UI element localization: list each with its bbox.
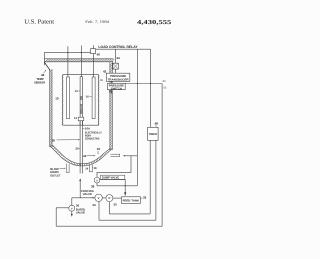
svg-text:28: 28 (52, 139, 56, 143)
svg-text:70: 70 (109, 90, 113, 94)
svg-text:52: 52 (163, 86, 166, 89)
svg-text:SENSOR: SENSOR (34, 81, 46, 85)
feed tank box 32 (121, 197, 140, 204)
label 70 (109, 90, 113, 94)
pressure transducer box (106, 73, 129, 81)
wire to steam outlet sensor (v1) (136, 49, 138, 156)
svg-text:OUTLET: OUTLET (50, 173, 61, 177)
timer output wire A (149, 140, 151, 214)
label 36 (steam space) (100, 79, 103, 82)
transducer-switch connector wire (111, 81, 113, 83)
label 10 (55, 97, 59, 101)
control valve circle 38 (95, 194, 102, 201)
label 38 (91, 184, 95, 188)
svg-text:14: 14 (75, 90, 78, 93)
label 12 (74, 117, 77, 120)
bleed valve drain arrow (71, 211, 73, 217)
label 20 with pointer (75, 147, 80, 151)
svg-text:18: 18 (94, 167, 97, 170)
label DUMP VALVE (boxed) (101, 175, 125, 179)
electrode E3 hanger rod (93, 45, 95, 77)
svg-text:4,430,555: 4,430,555 (137, 20, 171, 26)
svg-text:12: 12 (74, 117, 77, 120)
label 50 (163, 80, 166, 83)
timer box 48 (148, 127, 158, 140)
pump to feed tank pipe (113, 197, 122, 199)
electrode E2 hanger rod (80, 46, 82, 77)
bleed branch drop (71, 198, 73, 205)
svg-text:40: 40 (97, 53, 101, 57)
dump valve top wire (97, 156, 131, 178)
temp sensor lead wire (43, 53, 45, 66)
shaft bushing at vessel bottom (78, 117, 84, 121)
switch pressure tap stub (111, 90, 113, 94)
label 32 with leader (140, 196, 146, 200)
label 30 (113, 202, 117, 206)
electrode E1 (left) (66, 77, 69, 119)
label 46 (41, 73, 45, 77)
label 16A with leader (83, 126, 90, 130)
junction switch-wire x timer-drop (150, 83, 151, 84)
svg-text:DUMP VALVE: DUMP VALVE (102, 176, 119, 180)
svg-text:10: 10 (55, 97, 59, 101)
svg-text:19: 19 (97, 147, 101, 151)
dump valve circle (94, 177, 100, 183)
feed pipe left run (72, 197, 95, 199)
svg-text:44: 44 (116, 56, 120, 60)
tank top-left corner chamfer (45, 62, 51, 70)
blowdown outlet stub (66, 164, 70, 173)
label BLOW DOWN OUTLET (50, 167, 61, 178)
relay to transducer wire (115, 69, 117, 73)
svg-text:36: 36 (100, 79, 103, 82)
svg-text:VALVE: VALVE (83, 192, 93, 196)
steam outlet pointer arrow (123, 155, 137, 157)
label 48 (155, 122, 159, 128)
svg-text:CONDUCTIVE: CONDUCTIVE (85, 136, 100, 140)
label ELECTRICALLY NON-CONDUCTIVE (85, 130, 102, 140)
feed pump circle 30 (106, 195, 113, 202)
tank bottom curve hatching (50, 145, 112, 166)
svg-text:U.S. Patent: U.S. Patent (24, 18, 54, 25)
svg-text:36: 36 (76, 204, 80, 208)
electrode E2 / center shaft upper (80, 77, 82, 126)
label 14 electrode leader (75, 90, 80, 93)
condensate return rail (97, 183, 137, 186)
svg-text:V: V (98, 196, 100, 200)
label 46 arrow (44, 70, 47, 73)
electrode E1 hanger rod (67, 46, 69, 77)
bus junction E2 (81, 52, 82, 53)
stub 18 (right drain) (89, 164, 93, 172)
svg-text:50: 50 (163, 80, 166, 83)
label 24 arrow (83, 154, 95, 158)
tank left wall (hatched band) (50, 69, 52, 147)
timer feed wire (v2) (150, 49, 152, 127)
label CONTROL VALVE (81, 189, 94, 196)
svg-text:VALVE: VALVE (76, 212, 85, 215)
timer output wire B (155, 140, 157, 220)
v1 lower segment (136, 156, 138, 186)
svg-text:V: V (71, 207, 73, 210)
pump to control valve pipe (102, 197, 106, 199)
electrode bus wire (44, 52, 90, 54)
bleed valve circle 36 (69, 205, 75, 211)
junction return rail (125, 185, 126, 186)
tank right wall (hatched band) (110, 62, 112, 150)
header: date Feb. 7, 1984 (85, 19, 109, 24)
electrode E3 (right) (92, 77, 95, 119)
label BLEED VALVE (76, 209, 85, 215)
header: U.S. Patent (24, 18, 54, 25)
svg-text:30: 30 (113, 202, 117, 206)
tank top lid (hatched band) (44, 59, 114, 62)
label 28 with arrow (52, 139, 80, 143)
header: patent number 4,430,555 (137, 20, 171, 26)
label 40 (97, 53, 101, 57)
inner vessel bottom edge (63, 124, 99, 126)
center shaft lower (through tank bottom) (80, 121, 82, 174)
svg-text:24: 24 (83, 154, 87, 158)
control valve inlet arrow (93, 197, 95, 199)
feed pipe riser with arrow into tank (79, 178, 81, 198)
svg-text:34: 34 (92, 203, 96, 207)
svg-text:V: V (96, 179, 98, 182)
electrode E2 non-conductive hatch fill (80, 96, 82, 114)
svg-text:14: 14 (85, 168, 88, 171)
label 36 (76, 204, 80, 208)
bus junction E1 (67, 52, 68, 53)
bottom rail 1 (to pump) (109, 202, 150, 214)
dump valve to feed tank wire (100, 179, 127, 196)
svg-text:16: 16 (86, 95, 89, 98)
inner vessel right wall (98, 75, 100, 126)
pressure switch box (108, 83, 126, 90)
label 44 (116, 56, 120, 60)
relay coil U44 (113, 63, 118, 69)
label TEMP SENSOR (34, 77, 46, 84)
tank dished bottom (outer shell curve) (50, 145, 112, 166)
svg-text:Feb. 7, 1984: Feb. 7, 1984 (85, 19, 109, 24)
steam outlet pipe 19 (111, 154, 120, 157)
relay coil feed wire (115, 49, 117, 63)
label 19 with pointer (97, 147, 101, 154)
junction switch-wire x relay-drop (137, 83, 138, 84)
blowdown pointer arrow (59, 168, 65, 169)
label 34 (92, 203, 96, 207)
pressure switch output wire (125, 83, 162, 85)
feedthrough box 45 (91, 49, 96, 54)
svg-text:38: 38 (91, 184, 95, 188)
label LOAD CONTROL RELAY (98, 45, 138, 49)
label 14 (85, 168, 88, 171)
svg-text:42: 42 (103, 69, 107, 73)
svg-text:TIMER: TIMER (149, 132, 158, 136)
svg-text:32: 32 (143, 196, 147, 200)
svg-text:SWITCH: SWITCH (111, 87, 122, 90)
svg-text:20: 20 (75, 147, 79, 151)
label 18 (92, 167, 97, 170)
pressure switch wire drop (v4) (161, 84, 163, 227)
label 42 (103, 69, 107, 73)
inner vessel left wall (62, 75, 64, 126)
svg-text:P: P (108, 196, 110, 200)
bottom rail 3 (to bleed valve) (56, 208, 162, 226)
label 52 (163, 86, 166, 89)
svg-text:TRANSDUCER: TRANSDUCER (108, 78, 129, 81)
svg-text:LOAD CONTROL RELAY: LOAD CONTROL RELAY (98, 45, 138, 49)
label 16 electrode leader (86, 95, 92, 98)
bottom rail 2 (to control valve) (99, 202, 156, 221)
svg-text:FEED TANK: FEED TANK (123, 199, 140, 202)
inner vessel top edge (63, 74, 99, 76)
load control wire (label underline) (96, 48, 151, 50)
svg-text:48: 48 (155, 122, 159, 126)
